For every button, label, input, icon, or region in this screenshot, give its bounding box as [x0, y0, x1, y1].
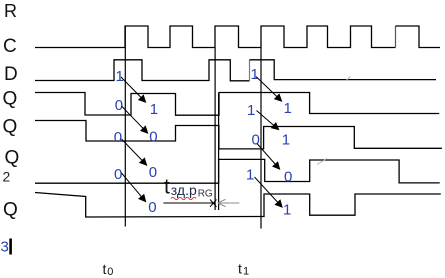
svg-text:1: 1 [247, 102, 255, 119]
svg-text:RG: RG [198, 189, 213, 200]
svg-text:1: 1 [282, 132, 290, 149]
svg-text:Q: Q [5, 148, 20, 169]
svg-text:0: 0 [114, 129, 122, 146]
svg-text:1: 1 [284, 100, 292, 117]
svg-text:C: C [3, 36, 17, 57]
svg-text:0: 0 [149, 129, 157, 146]
svg-text:0: 0 [284, 169, 292, 186]
svg-text:1: 1 [283, 202, 291, 219]
svg-text:Q: Q [3, 200, 18, 221]
svg-text:0: 0 [107, 266, 113, 278]
svg-text:0: 0 [114, 166, 122, 183]
svg-text:Q: Q [3, 89, 18, 110]
svg-text:2: 2 [3, 169, 11, 185]
svg-text:D: D [4, 64, 18, 85]
svg-text:0: 0 [148, 199, 156, 216]
svg-text:1: 1 [150, 101, 158, 118]
svg-text:1: 1 [246, 167, 254, 184]
svg-text:t: t [238, 261, 242, 277]
svg-text:0: 0 [149, 164, 157, 181]
svg-text:1: 1 [251, 66, 259, 83]
svg-text:3: 3 [1, 239, 9, 256]
svg-text:R: R [4, 1, 17, 21]
svg-text:t: t [103, 261, 107, 277]
svg-text:0: 0 [115, 97, 123, 114]
svg-text:1: 1 [243, 266, 249, 278]
svg-text:1: 1 [116, 68, 124, 85]
svg-text:Q: Q [3, 117, 18, 138]
svg-text:t: t [164, 176, 170, 199]
svg-text:зд.р: зд.р [171, 182, 197, 198]
